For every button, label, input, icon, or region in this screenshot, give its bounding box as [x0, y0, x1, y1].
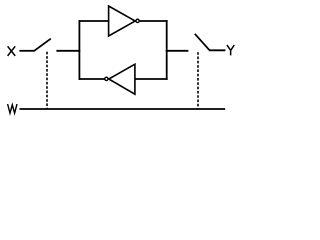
wire switch to node A: [56, 50, 80, 52]
wire U1 output to node B: [140, 20, 168, 22]
dashed control line right: [197, 52, 199, 109]
wire W line: [20, 108, 226, 110]
wire node A to inverter U2 bubble: [79, 78, 105, 80]
wire switch S2 to Y: [209, 49, 225, 51]
inverter U2 bubble: [105, 77, 108, 80]
node A vertical wire: [78, 20, 80, 80]
node W label: [8, 104, 17, 113]
wire node B to switch S2: [166, 50, 189, 52]
wire X lead: [19, 50, 34, 52]
node X label: [8, 46, 16, 56]
switch S1 blade: [34, 39, 51, 51]
node Y label: [227, 45, 234, 55]
wire node A to inverter U1 input: [79, 20, 109, 22]
node B vertical wire: [166, 20, 168, 80]
dashed control line left: [46, 52, 48, 109]
inverter U1 triangle: [109, 6, 136, 36]
switch S2 blade: [195, 34, 210, 51]
wire U2 input to node B: [135, 78, 168, 80]
inverter U2 triangle: [109, 64, 135, 94]
inverter U1 bubble: [136, 19, 139, 22]
